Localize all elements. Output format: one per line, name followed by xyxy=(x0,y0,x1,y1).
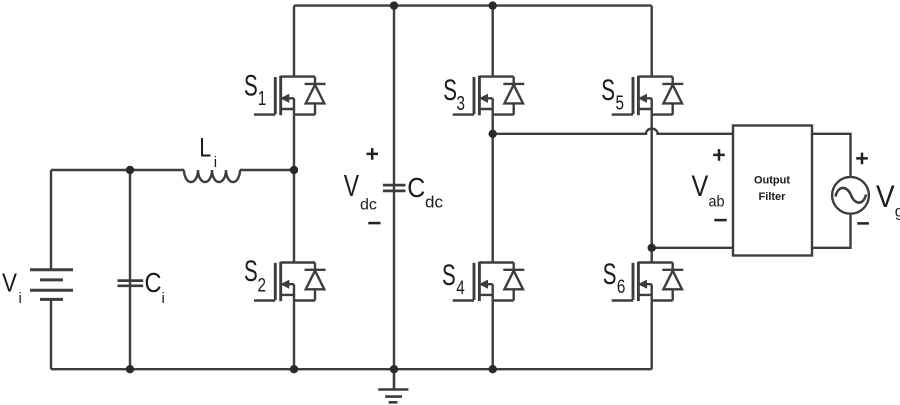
svg-text:g: g xyxy=(895,204,900,221)
svg-text:i: i xyxy=(214,154,217,171)
svg-text:4: 4 xyxy=(456,277,465,299)
svg-text:S: S xyxy=(442,259,456,292)
svg-text:dc: dc xyxy=(360,196,377,213)
svg-text:Filter: Filter xyxy=(759,191,787,203)
svg-text:ab: ab xyxy=(709,193,725,210)
svg-text:V: V xyxy=(692,170,709,203)
svg-text:Output: Output xyxy=(754,174,790,186)
svg-text:S: S xyxy=(443,74,457,107)
svg-text:3: 3 xyxy=(457,93,466,115)
svg-text:i: i xyxy=(162,290,165,307)
svg-text:S: S xyxy=(601,74,615,107)
svg-text:S: S xyxy=(244,70,258,103)
svg-text:1: 1 xyxy=(258,88,267,110)
svg-text:i: i xyxy=(19,290,22,307)
svg-text:S: S xyxy=(603,258,617,291)
svg-text:2: 2 xyxy=(258,275,267,297)
svg-text:V: V xyxy=(876,178,895,214)
svg-text:dc: dc xyxy=(425,193,443,212)
svg-text:C: C xyxy=(407,172,425,203)
svg-text:V: V xyxy=(344,168,360,203)
svg-text:L: L xyxy=(199,132,211,162)
svg-text:S: S xyxy=(244,255,258,288)
svg-text:5: 5 xyxy=(616,93,625,115)
svg-text:C: C xyxy=(145,267,162,298)
svg-text:V: V xyxy=(2,267,18,297)
svg-text:6: 6 xyxy=(617,276,626,298)
